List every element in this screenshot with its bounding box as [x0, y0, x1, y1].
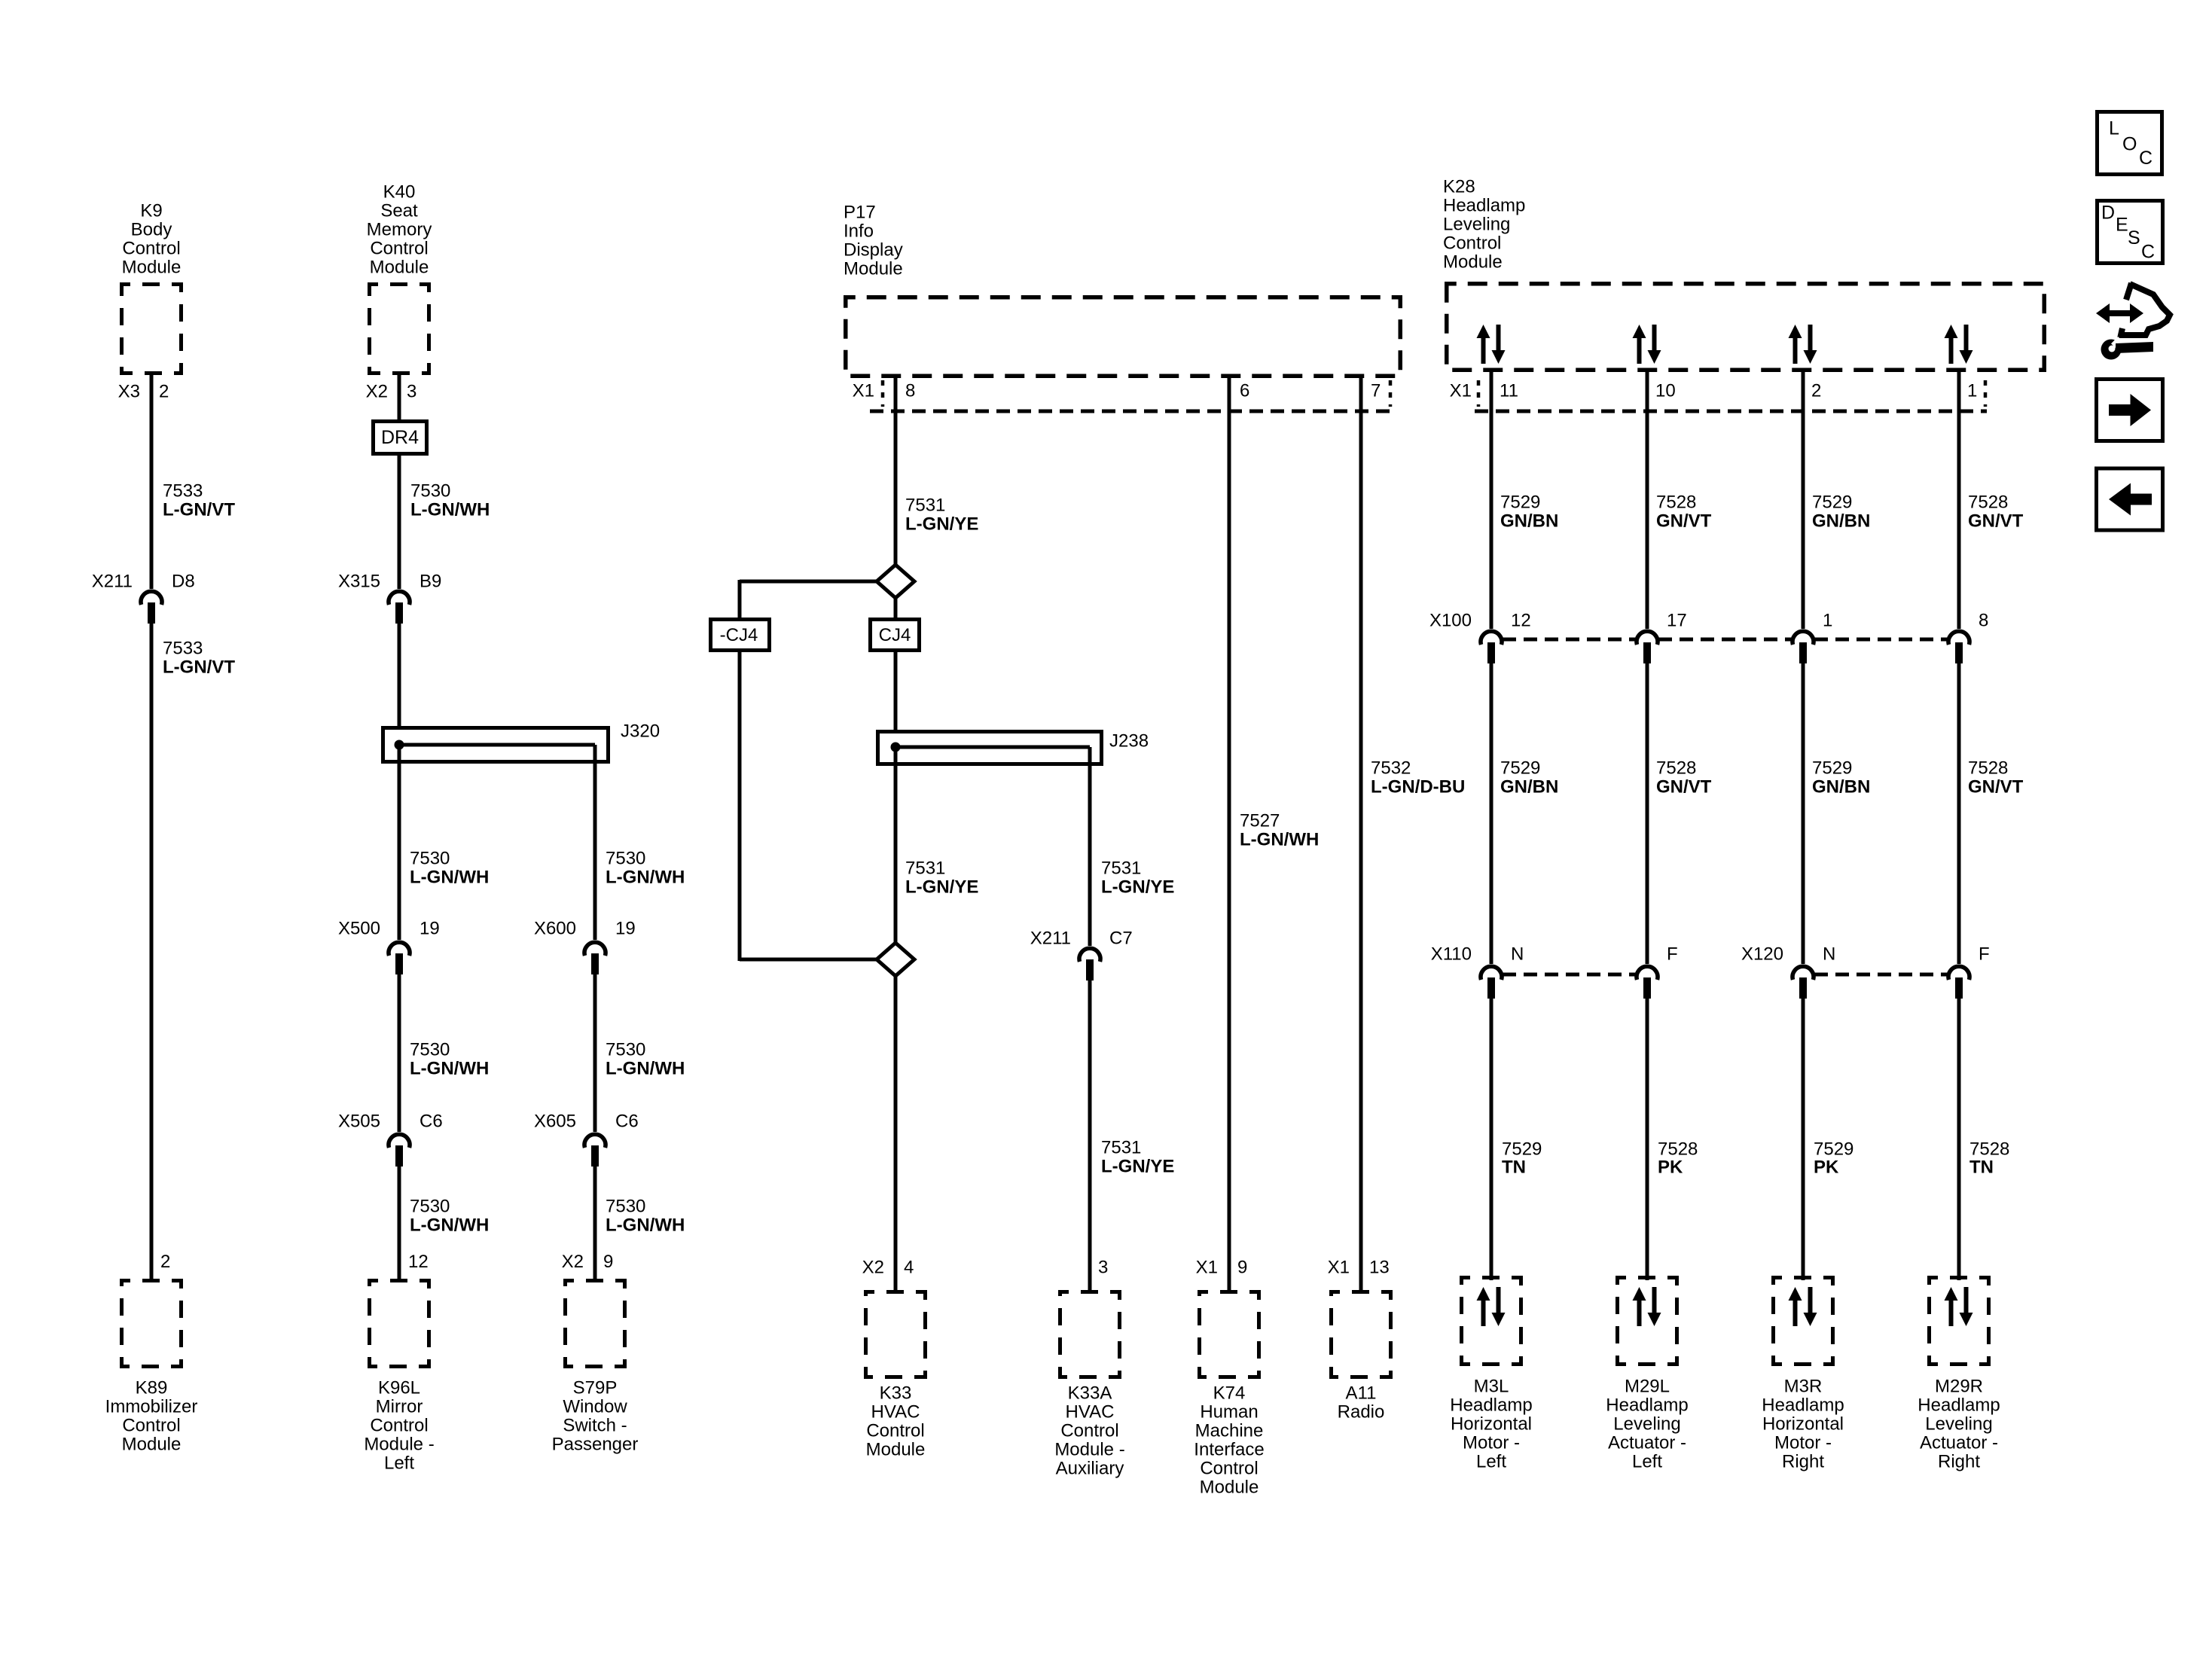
svg-text:K96L: K96L: [378, 1378, 420, 1398]
svg-text:O: O: [2122, 134, 2137, 155]
svg-text:7533: 7533: [163, 639, 203, 659]
svg-text:Memory: Memory: [367, 220, 432, 240]
svg-text:Human: Human: [1200, 1402, 1258, 1423]
svg-text:X2: X2: [562, 1252, 584, 1272]
svg-text:HVAC: HVAC: [871, 1402, 920, 1423]
svg-text:1: 1: [1967, 381, 1977, 401]
svg-text:PK: PK: [1658, 1157, 1683, 1178]
fuse -CJ4 box: [711, 620, 770, 651]
wire 7531 J238 left branch to lower diamond: [894, 747, 898, 944]
svg-text:L-GN/WH: L-GN/WH: [410, 868, 489, 888]
svg-text:7530: 7530: [410, 1040, 450, 1060]
svg-text:L-GN/WH: L-GN/WH: [1240, 830, 1319, 850]
fuse CJ4 box: [871, 620, 920, 651]
wire label 7528 TN lower segment: [1969, 1139, 2009, 1178]
svg-text:X2: X2: [366, 382, 388, 402]
wire 7528 from K28 to X100: [1646, 372, 1649, 629]
wire label 7529 GN/BN: [1812, 493, 1870, 532]
svg-text:K33: K33: [880, 1383, 912, 1404]
svg-text:C: C: [2139, 148, 2153, 169]
svg-text:X3: X3: [118, 382, 140, 402]
svg-text:Display: Display: [844, 240, 903, 261]
svg-text:L-GN/YE: L-GN/YE: [1101, 1157, 1174, 1177]
wire 7531 J238 right branch to X211 C7: [1088, 747, 1092, 946]
svg-text:B9: B9: [420, 572, 441, 592]
svg-text:L-GN/YE: L-GN/YE: [905, 877, 978, 898]
connector X100 pin 8: [1948, 611, 1988, 664]
wire 7530 J320 left branch to X500: [398, 745, 401, 940]
dashed link X100 connectors: [1503, 638, 1948, 642]
svg-text:L-GN/VT: L-GN/VT: [163, 657, 235, 678]
wire label 7533 L-GN/VT lower: [163, 639, 235, 678]
svg-text:7528: 7528: [1656, 758, 1696, 779]
wire from upper diamond to -CJ4: [740, 580, 877, 619]
wire label 7528 GN/VT: [1968, 493, 2024, 532]
svg-text:TN: TN: [1969, 1157, 1994, 1178]
svg-text:Machine: Machine: [1195, 1421, 1264, 1441]
module K74 box: [1200, 1292, 1259, 1377]
wire from -CJ4 to lower diamond: [740, 652, 877, 961]
svg-text:J238: J238: [1109, 731, 1149, 752]
module K33 HVAC Control Module label: [866, 1383, 926, 1460]
svg-text:L-GN/WH: L-GN/WH: [410, 500, 490, 520]
svg-text:19: 19: [420, 919, 440, 939]
wire 7529 from X110/X120 to actuator: [1802, 999, 1805, 1280]
wire 7528 from X100 to X110/X120 row: [1957, 663, 1961, 964]
pin 8 label of P17: [905, 381, 915, 401]
pin 3 of K33A: [1098, 1258, 1108, 1278]
wire 7528 from X100 to X110/X120 row: [1646, 663, 1649, 964]
svg-text:7531: 7531: [905, 496, 945, 516]
svg-text:X505: X505: [338, 1112, 380, 1132]
svg-text:9: 9: [1237, 1258, 1247, 1278]
svg-text:GN/BN: GN/BN: [1812, 511, 1870, 532]
svg-text:L-GN/YE: L-GN/YE: [905, 514, 978, 535]
svg-text:Switch -: Switch -: [563, 1416, 627, 1436]
svg-text:7: 7: [1371, 381, 1381, 401]
bidirectional arrows inside M3L: [1477, 1287, 1506, 1326]
svg-text:7531: 7531: [1101, 1138, 1141, 1158]
svg-text:Passenger: Passenger: [552, 1435, 639, 1455]
svg-text:D8: D8: [172, 572, 195, 592]
svg-text:L-GN/VT: L-GN/VT: [163, 500, 235, 520]
svg-text:7528: 7528: [1968, 493, 2008, 513]
svg-text:X110: X110: [1431, 944, 1472, 965]
svg-text:D: D: [2101, 203, 2115, 224]
svg-text:8: 8: [905, 381, 915, 401]
svg-text:Mirror: Mirror: [376, 1397, 423, 1417]
wire label 7530 L-GN/WH to K96L: [410, 1197, 489, 1236]
wire label 7531 L-GN/YE to K33A: [1101, 1138, 1174, 1177]
bidirectional arrows inside K28 output 1: [1477, 325, 1506, 364]
pin row X1 13 of A11: [1328, 1258, 1390, 1278]
svg-text:7528: 7528: [1658, 1139, 1698, 1160]
pin 10 label of K28: [1655, 381, 1676, 401]
svg-text:Leveling: Leveling: [1613, 1414, 1680, 1435]
wire from K40 X2-3 to DR4: [398, 375, 401, 419]
svg-text:S79P: S79P: [573, 1378, 618, 1398]
svg-text:L: L: [2109, 118, 2119, 139]
svg-text:7528: 7528: [1656, 493, 1696, 513]
svg-text:7531: 7531: [905, 858, 945, 879]
svg-text:X100: X100: [1429, 611, 1472, 631]
svg-text:X211: X211: [1030, 929, 1071, 949]
module P17 box: [846, 297, 1401, 377]
connector X120 pin F: [1948, 944, 1990, 999]
wire label 7529 GN/BN middle segment: [1812, 758, 1870, 798]
svg-text:L-GN/YE: L-GN/YE: [1101, 877, 1174, 898]
svg-text:3: 3: [1098, 1258, 1108, 1278]
connector X100 pin 17: [1637, 611, 1687, 664]
svg-text:7531: 7531: [1101, 858, 1141, 879]
svg-text:Motor -: Motor -: [1463, 1433, 1520, 1453]
svg-text:GN/BN: GN/BN: [1812, 777, 1870, 798]
motor M29R label: [1918, 1377, 2000, 1472]
svg-text:CJ4: CJ4: [879, 625, 911, 645]
bidirectional arrows inside M29L: [1633, 1287, 1661, 1326]
module A11 Radio label: [1338, 1383, 1385, 1423]
wire label 7531 L-GN/YE right branch: [1101, 858, 1174, 898]
svg-text:Module -: Module -: [1054, 1440, 1124, 1460]
svg-text:GN/VT: GN/VT: [1656, 777, 1712, 798]
pin row X1 9 of K74: [1196, 1258, 1248, 1278]
pin 2 label of K28: [1811, 381, 1821, 401]
svg-text:S: S: [2128, 227, 2140, 249]
motor M3R label: [1762, 1377, 1844, 1472]
svg-text:L-GN/WH: L-GN/WH: [606, 1215, 685, 1236]
dashed link X110 connectors: [1503, 973, 1636, 977]
svg-text:Module: Module: [122, 1435, 182, 1455]
svg-text:19: 19: [615, 919, 636, 939]
bidirectional arrows inside K28 output 4: [1945, 325, 1973, 364]
wire label 7531 L-GN/YE: [905, 496, 978, 535]
svg-text:17: 17: [1667, 611, 1687, 631]
svg-text:Control: Control: [122, 239, 180, 259]
motor M29R box: [1930, 1278, 1989, 1365]
svg-text:TN: TN: [1502, 1157, 1526, 1178]
svg-text:7529: 7529: [1814, 1139, 1854, 1160]
svg-text:Window: Window: [563, 1397, 627, 1417]
svg-text:HVAC: HVAC: [1066, 1402, 1115, 1423]
svg-text:X2: X2: [862, 1258, 884, 1278]
wire 7530 X500 to X505: [398, 974, 401, 1132]
svg-text:7530: 7530: [606, 1040, 645, 1060]
wire label 7529 GN/BN: [1500, 493, 1558, 532]
svg-text:Right: Right: [1938, 1452, 1980, 1472]
fuse DR4 box: [374, 422, 427, 454]
wire 7529 from X100 to X110/X120 row: [1802, 663, 1805, 964]
svg-text:Module: Module: [370, 258, 429, 278]
bidirectional arrows inside M3R: [1789, 1287, 1817, 1326]
wire 7530 X505 to K96L: [398, 1167, 401, 1280]
connector X600 pin 19: [534, 919, 636, 975]
svg-text:Motor -: Motor -: [1774, 1433, 1832, 1453]
svg-text:A11: A11: [1346, 1383, 1377, 1404]
svg-text:Info: Info: [844, 221, 874, 242]
svg-text:Horizontal: Horizontal: [1451, 1414, 1532, 1435]
svg-text:Headlamp: Headlamp: [1443, 196, 1525, 216]
module K33 box: [866, 1292, 926, 1377]
svg-text:3: 3: [407, 382, 416, 402]
pin row X2 3 of K40: [366, 382, 417, 402]
svg-text:Body: Body: [131, 220, 172, 240]
svg-text:2: 2: [160, 1252, 170, 1272]
svg-text:7530: 7530: [410, 849, 450, 869]
svg-text:7532: 7532: [1371, 758, 1411, 779]
svg-text:GN/BN: GN/BN: [1500, 777, 1558, 798]
svg-text:X1: X1: [853, 381, 874, 401]
icon DESC box: [2098, 201, 2163, 264]
wire label 7529 TN lower segment: [1502, 1139, 1542, 1178]
svg-text:Leveling: Leveling: [1443, 215, 1510, 235]
svg-text:7530: 7530: [410, 481, 450, 502]
svg-text:X1: X1: [1196, 1258, 1218, 1278]
svg-text:Immobilizer: Immobilizer: [105, 1397, 198, 1417]
wire 7528 from K28 to X100: [1957, 372, 1961, 629]
connector X110 pin F: [1637, 944, 1678, 999]
wire label 7528 GN/VT middle segment: [1656, 758, 1712, 798]
wire 7530 from DR4 to X315: [398, 456, 401, 589]
svg-text:Module: Module: [1443, 252, 1503, 273]
module K33A HVAC Control Module Auxiliary label: [1054, 1383, 1124, 1479]
svg-text:1: 1: [1823, 611, 1832, 631]
connector row X110 label: [1431, 944, 1472, 965]
pin 7 label of P17: [1371, 381, 1381, 401]
connector X100 pin 1: [1792, 611, 1832, 664]
bidirectional arrows inside M29R: [1945, 1287, 1973, 1326]
svg-text:K40: K40: [383, 182, 416, 203]
connector row X100 label: [1429, 611, 1472, 631]
wire 7531 X211 C7 to K33A: [1088, 980, 1092, 1292]
module K89 Immobilizer Control Module label: [105, 1378, 198, 1455]
pin 11 label of K28: [1500, 381, 1518, 401]
svg-text:Module: Module: [866, 1440, 926, 1460]
svg-text:Left: Left: [1476, 1452, 1506, 1472]
wire 7529 from X110/X120 to actuator: [1490, 999, 1493, 1280]
wire label 7530 L-GN/WH: [410, 481, 490, 520]
wire 7532 from P17 pin 7 to A11: [1359, 374, 1363, 1292]
svg-text:M3R: M3R: [1784, 1377, 1823, 1397]
svg-text:Auxiliary: Auxiliary: [1056, 1459, 1124, 1479]
connector X505 pin C6: [338, 1112, 443, 1167]
svg-text:Interface: Interface: [1194, 1440, 1264, 1460]
motor M3R box: [1774, 1278, 1833, 1365]
svg-text:12: 12: [1511, 611, 1531, 631]
svg-text:GN/BN: GN/BN: [1500, 511, 1558, 532]
svg-text:7533: 7533: [163, 481, 203, 502]
icon forward arrow box: [2097, 380, 2163, 441]
svg-text:Headlamp: Headlamp: [1918, 1395, 2000, 1416]
svg-text:K74: K74: [1213, 1383, 1246, 1404]
splice pack J320: [383, 728, 609, 762]
svg-text:K33A: K33A: [1068, 1383, 1112, 1404]
module A11 box: [1332, 1292, 1391, 1377]
svg-text:N: N: [1511, 944, 1524, 965]
wire 7531 lower diamond to K33: [894, 976, 898, 1292]
connector X500 pin 19: [338, 919, 440, 975]
bidirectional arrows inside K28 output 2: [1633, 325, 1661, 364]
svg-text:N: N: [1823, 944, 1835, 965]
svg-text:GN/VT: GN/VT: [1968, 777, 2024, 798]
svg-text:J320: J320: [621, 721, 660, 742]
svg-text:8: 8: [1979, 611, 1988, 631]
pin row X2 4 of K33: [862, 1258, 914, 1278]
svg-text:X120: X120: [1741, 944, 1783, 965]
svg-text:C: C: [2141, 242, 2155, 263]
svg-text:L-GN/WH: L-GN/WH: [606, 868, 685, 888]
motor M3L box: [1462, 1278, 1521, 1365]
module K9 box: [122, 285, 182, 374]
svg-text:Actuator -: Actuator -: [1920, 1433, 1998, 1453]
svg-text:C6: C6: [615, 1112, 639, 1132]
svg-text:11: 11: [1500, 381, 1518, 401]
svg-text:P17: P17: [844, 203, 876, 223]
module K28 Headlamp Leveling Control Module label: [1443, 177, 1525, 273]
svg-text:Seat: Seat: [380, 201, 418, 221]
connector X211 pin C7: [1030, 929, 1133, 981]
svg-text:7529: 7529: [1812, 758, 1852, 779]
svg-text:E: E: [2116, 215, 2128, 236]
svg-text:K9: K9: [140, 201, 162, 221]
svg-text:Left: Left: [384, 1453, 414, 1474]
svg-text:13: 13: [1369, 1258, 1390, 1278]
wire label 7528 GN/VT middle segment: [1968, 758, 2024, 798]
wire 7528 from X110/X120 to actuator: [1646, 999, 1649, 1280]
connector X120 pin N: [1792, 944, 1835, 999]
icon LOC box: [2098, 112, 2162, 175]
module K9 Body Control Module label: [122, 201, 182, 278]
wire 7529 from K28 to X100: [1802, 372, 1805, 629]
svg-text:Module -: Module -: [364, 1435, 434, 1455]
connector X605 pin C6: [534, 1112, 639, 1167]
svg-text:Headlamp: Headlamp: [1606, 1395, 1688, 1416]
wire 7530 J320 right branch to X600: [593, 745, 597, 940]
svg-text:Control: Control: [866, 1421, 924, 1441]
module K74 Human Machine Interface Control Module label: [1194, 1383, 1264, 1498]
wire from CJ4 to splice J238: [894, 652, 898, 731]
svg-text:7529: 7529: [1500, 493, 1540, 513]
svg-text:Control: Control: [1060, 1421, 1118, 1441]
wire 7528 from X110/X120 to actuator: [1957, 999, 1961, 1280]
svg-text:9: 9: [603, 1252, 613, 1272]
svg-text:7528: 7528: [1968, 758, 2008, 779]
svg-text:Module: Module: [844, 259, 903, 279]
splice J238 label: [1109, 731, 1149, 752]
svg-text:2: 2: [1811, 381, 1821, 401]
wire label 7529 GN/BN middle segment: [1500, 758, 1558, 798]
icon back arrow box: [2097, 468, 2163, 530]
wire 7529 from X100 to X110/X120 row: [1490, 663, 1493, 964]
wire 7533 from X211 to K89: [150, 624, 154, 1280]
module K96L Mirror Control Module Left label: [364, 1378, 434, 1474]
svg-text:4: 4: [904, 1258, 914, 1278]
svg-text:X315: X315: [338, 572, 380, 592]
wire label 7528 PK lower segment: [1658, 1139, 1698, 1178]
svg-text:Control: Control: [370, 1416, 428, 1436]
wire from upper diamond to CJ4: [894, 598, 898, 619]
wire 7530 X605 to S79P: [593, 1167, 597, 1280]
module S79P box: [566, 1281, 625, 1367]
wire label 7533 L-GN/VT: [163, 481, 235, 520]
wire label 7531 L-GN/YE left branch: [905, 858, 978, 898]
svg-text:7527: 7527: [1240, 811, 1280, 831]
bidirectional arrows inside K28 output 3: [1789, 325, 1817, 364]
svg-text:X500: X500: [338, 919, 380, 939]
svg-text:L-GN/WH: L-GN/WH: [410, 1059, 489, 1079]
svg-text:Horizontal: Horizontal: [1762, 1414, 1844, 1435]
wire 7527 from P17 pin 6 to K74: [1228, 374, 1231, 1292]
svg-text:7530: 7530: [606, 1197, 645, 1217]
wire label 7530 L-GN/WH right branch: [606, 849, 685, 888]
pin row X3 2 of K9: [118, 382, 169, 402]
pin 1 label of K28: [1967, 381, 1977, 401]
svg-text:-CJ4: -CJ4: [720, 625, 758, 645]
svg-text:Control: Control: [122, 1416, 180, 1436]
module K33A box: [1060, 1292, 1120, 1377]
wire label 7528 GN/VT: [1656, 493, 1712, 532]
module K40 Seat Memory Control Module label: [367, 182, 432, 278]
module S79P Window Switch Passenger label: [552, 1378, 639, 1455]
icon vehicle with arrows and wrench: [2096, 283, 2170, 360]
wire label 7530 L-GN/WH to S79P: [606, 1197, 685, 1236]
svg-text:X1: X1: [1328, 1258, 1350, 1278]
connector X110 pin N: [1481, 944, 1524, 999]
connector strip X1 of K28: [1450, 380, 1987, 411]
wire 7530 X600 to X605: [593, 974, 597, 1132]
svg-text:12: 12: [408, 1252, 429, 1272]
svg-text:7528: 7528: [1969, 1139, 2009, 1160]
wire 7533 from K9 X3-2 to X211: [150, 375, 154, 589]
svg-text:X600: X600: [534, 919, 576, 939]
motor M3L label: [1450, 1377, 1532, 1472]
svg-text:Headlamp: Headlamp: [1762, 1395, 1844, 1416]
connector X211 pin D8: [92, 572, 195, 624]
svg-text:Control: Control: [1200, 1459, 1258, 1479]
svg-text:10: 10: [1655, 381, 1676, 401]
svg-text:Headlamp: Headlamp: [1450, 1395, 1532, 1416]
wire label 7530 L-GN/WH above X605 right: [606, 1040, 685, 1079]
wire label 7530 L-GN/WH above X505 left: [410, 1040, 489, 1079]
dashed link X120 connectors: [1814, 973, 1948, 977]
svg-text:Module: Module: [122, 258, 182, 278]
svg-text:PK: PK: [1814, 1157, 1839, 1178]
splice J320 label: [621, 721, 660, 742]
wire 7529 from K28 to X100: [1490, 372, 1493, 629]
svg-text:7529: 7529: [1500, 758, 1540, 779]
pin 12 of K96L: [408, 1252, 429, 1272]
svg-text:7530: 7530: [410, 1197, 450, 1217]
svg-text:K89: K89: [136, 1378, 168, 1398]
wire label 7530 L-GN/WH left branch: [410, 849, 489, 888]
wire label 7532 L-GN/D-BU: [1371, 758, 1465, 798]
wire 7530 from X315 to splice J320: [398, 624, 401, 727]
svg-text:Leveling: Leveling: [1925, 1414, 1992, 1435]
wire label 7527 L-GN/WH: [1240, 811, 1319, 850]
svg-text:Left: Left: [1632, 1452, 1662, 1472]
svg-text:Control: Control: [1443, 233, 1501, 254]
svg-text:Radio: Radio: [1338, 1402, 1385, 1423]
wire 7531 from P17 pin 8 to junction diamond: [894, 374, 898, 566]
svg-text:M29L: M29L: [1625, 1377, 1670, 1397]
pin row X2 9 of S79P: [562, 1252, 614, 1272]
svg-text:C7: C7: [1109, 929, 1133, 949]
svg-text:X605: X605: [534, 1112, 576, 1132]
svg-text:L-GN/WH: L-GN/WH: [606, 1059, 685, 1079]
svg-text:GN/VT: GN/VT: [1656, 511, 1712, 532]
module P17 Info Display Module label: [844, 203, 903, 279]
svg-text:7529: 7529: [1812, 493, 1852, 513]
svg-text:Right: Right: [1782, 1452, 1824, 1472]
